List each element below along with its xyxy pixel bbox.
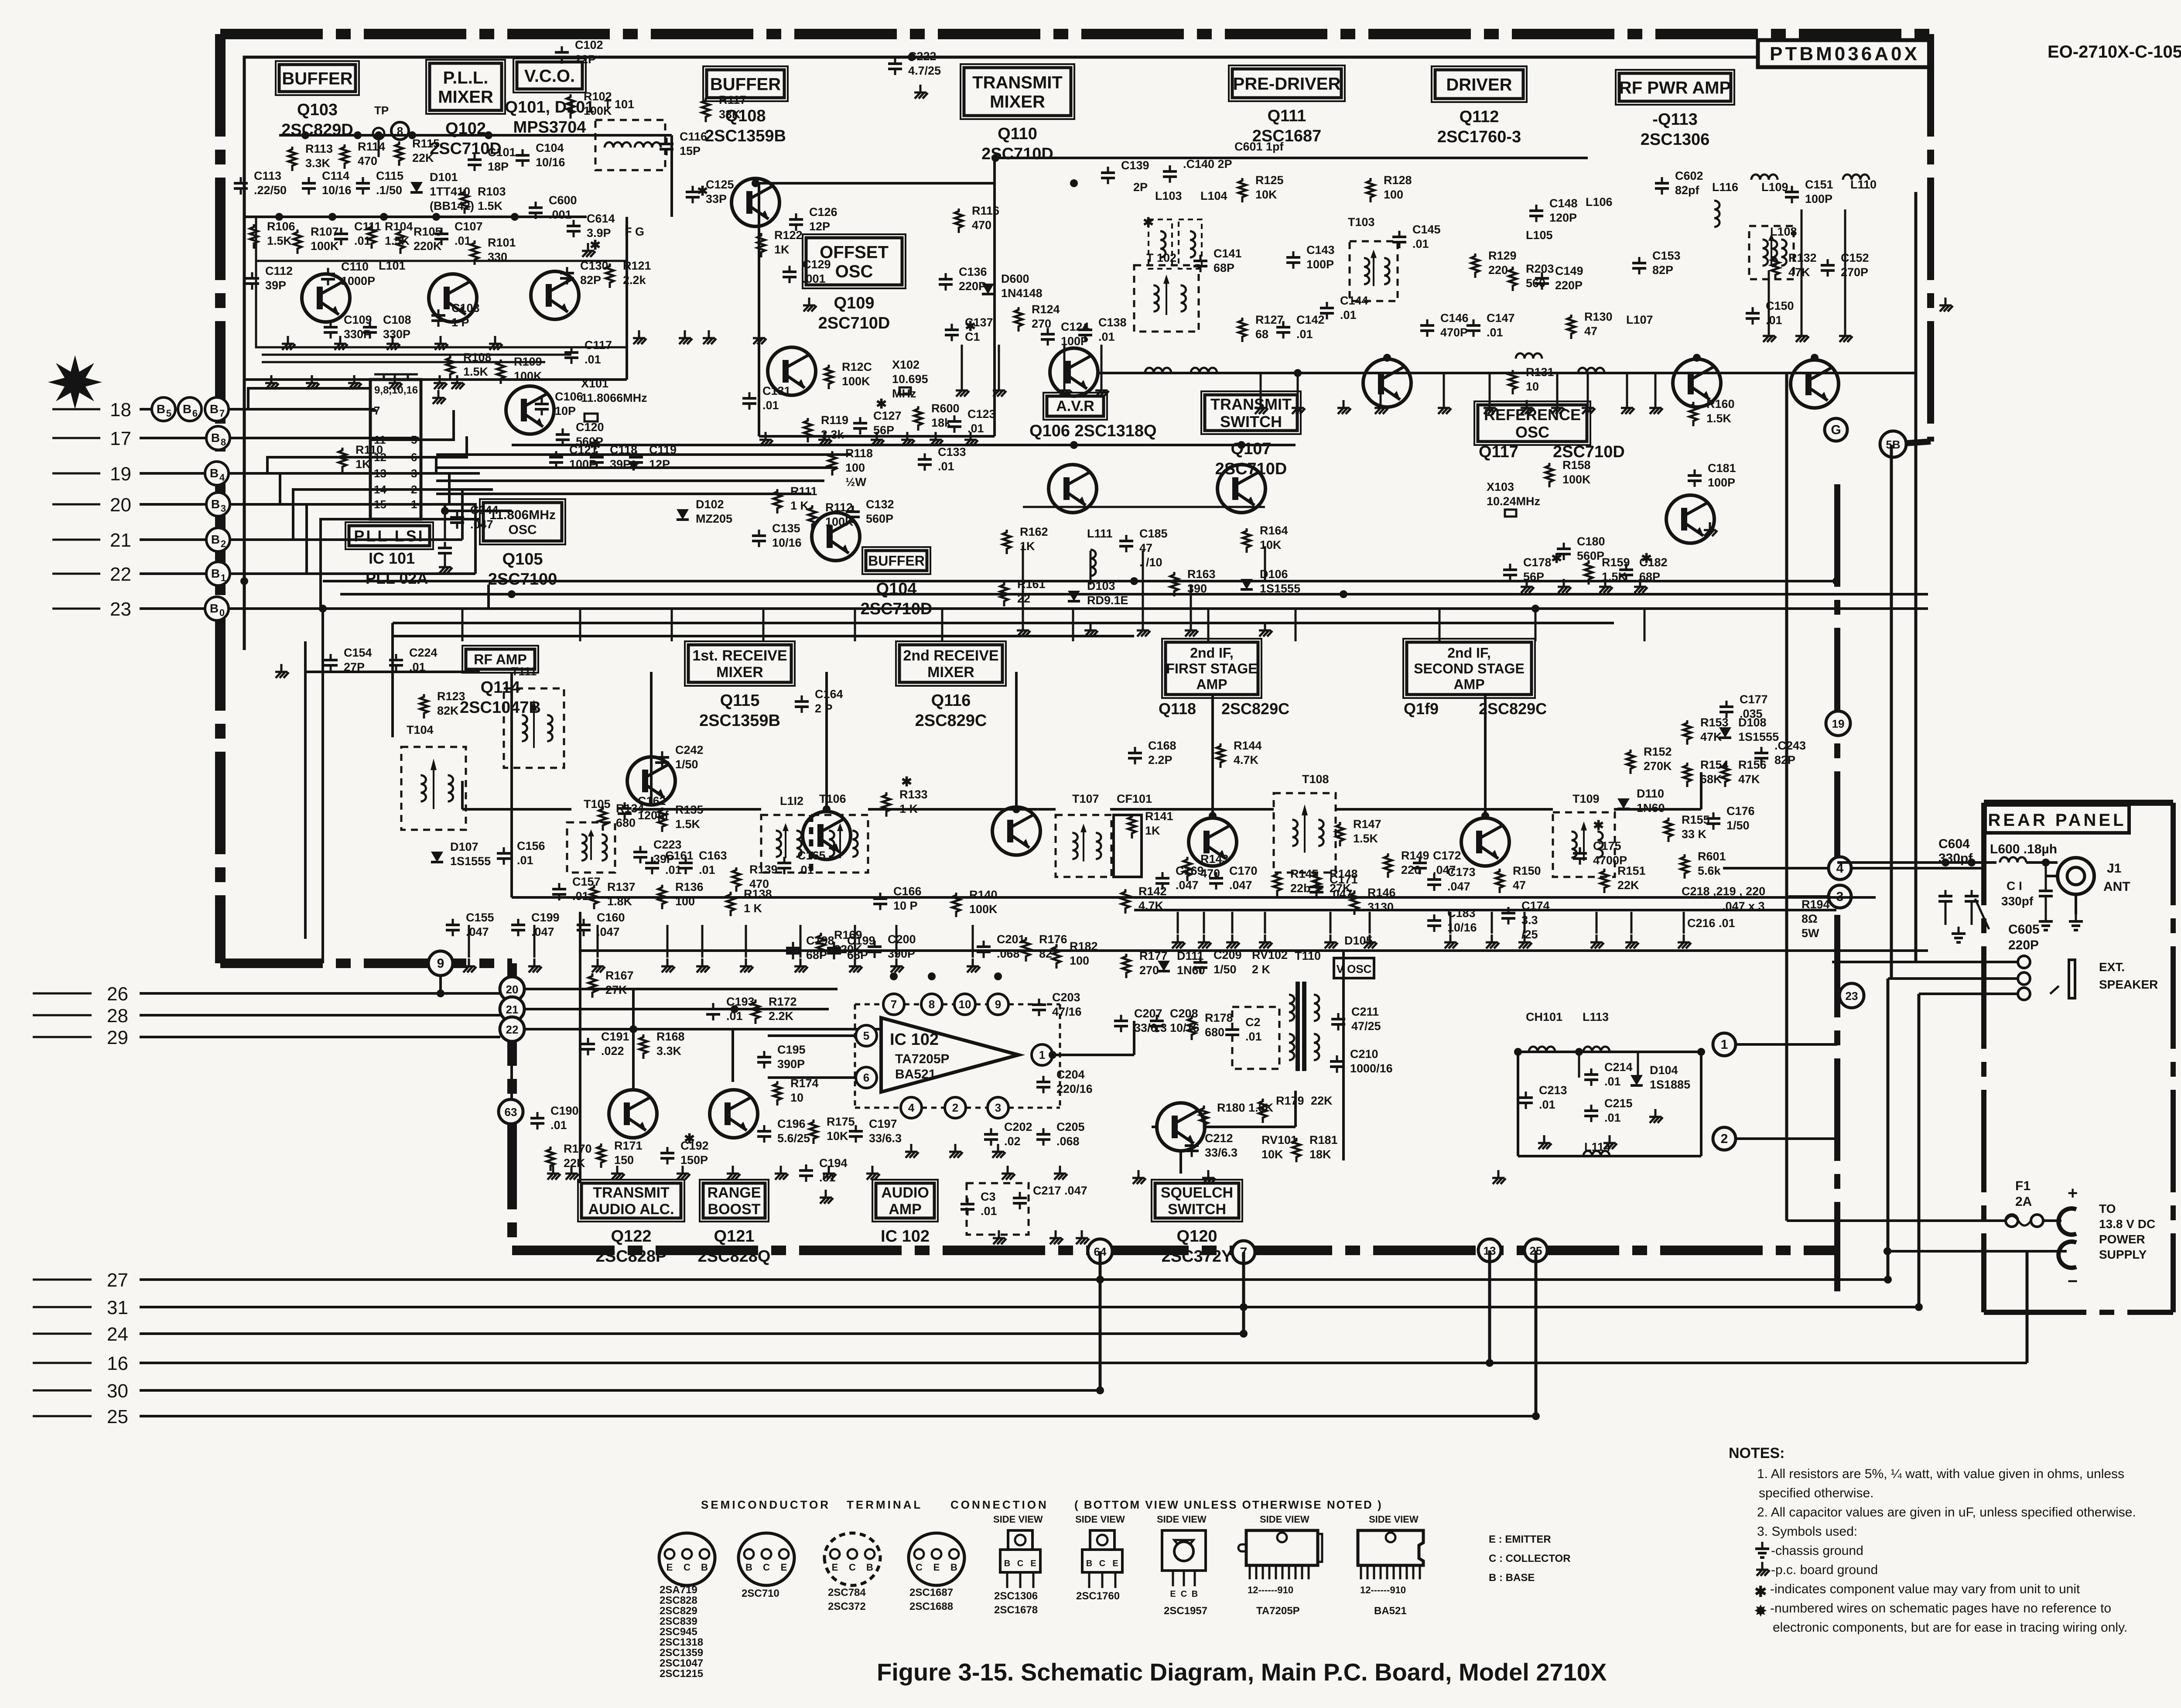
svg-text:63: 63 <box>505 1106 517 1119</box>
svg-text:2 K: 2 K <box>1252 963 1271 976</box>
block label 2nd IF FIRST STAGE AMP Q118 <box>1159 639 1289 718</box>
svg-text:10K: 10K <box>1261 1148 1283 1161</box>
svg-text:.01: .01 <box>1296 328 1313 341</box>
R117 <box>719 93 746 121</box>
svg-text:L110: L110 <box>1850 178 1877 191</box>
D108 <box>1738 716 1779 743</box>
svg-text:390P: 390P <box>888 947 915 960</box>
R181 <box>1309 1133 1338 1161</box>
resistor R167 glyph <box>588 973 596 998</box>
L107 <box>1626 313 1653 326</box>
svg-text:G: G <box>1831 423 1841 437</box>
svg-text:RANGE: RANGE <box>708 1184 761 1201</box>
block label TRANSMIT SWITCH Q107 <box>1201 391 1301 478</box>
svg-text:220K: 220K <box>414 240 442 253</box>
svg-text:2SC710D: 2SC710D <box>818 314 890 332</box>
C602 <box>1675 169 1703 197</box>
svg-text:31: 31 <box>107 1297 128 1318</box>
node 13 <box>1478 1239 1501 1262</box>
R147 <box>1353 818 1381 845</box>
capacitor C116 glyph <box>660 138 673 155</box>
svg-text:R167: R167 <box>605 969 634 982</box>
C143 <box>1306 243 1335 271</box>
svg-text:L104: L104 <box>1200 189 1227 202</box>
R182 <box>1070 940 1098 967</box>
diode D107 glyph <box>431 852 443 862</box>
svg-text:Q115: Q115 <box>720 691 760 710</box>
transformer T107 <box>1056 815 1111 877</box>
capacitor C214 glyph <box>1584 1068 1598 1086</box>
svg-text:.01: .01 <box>455 234 471 247</box>
C110 <box>341 260 375 288</box>
svg-text:33/6.3: 33/6.3 <box>869 1132 902 1145</box>
svg-text:NOTES:: NOTES: <box>1729 1445 1784 1462</box>
svg-text:21: 21 <box>506 1003 519 1016</box>
C119 <box>649 443 677 471</box>
resistor R135 glyph <box>658 808 666 832</box>
R127 <box>1255 313 1284 341</box>
svg-text:100P: 100P <box>1708 476 1735 489</box>
C111 <box>354 220 381 247</box>
svg-text:R117: R117 <box>719 93 746 106</box>
svg-text:C193: C193 <box>726 995 755 1008</box>
transformer T104 <box>401 747 466 830</box>
resistor R170 glyph <box>547 1147 554 1171</box>
svg-text:OSC: OSC <box>508 523 537 537</box>
svg-text:C117: C117 <box>585 339 612 352</box>
ground <box>967 958 980 972</box>
C157 <box>572 875 601 903</box>
block label AUDIO AMP IC102 <box>872 1180 938 1246</box>
capacitor C177 glyph <box>1720 701 1733 718</box>
svg-text:1N4148: 1N4148 <box>1001 287 1043 300</box>
ground <box>1521 400 1534 414</box>
capacitor C114 glyph <box>302 177 316 195</box>
svg-text:R163: R163 <box>1187 568 1216 581</box>
D104 <box>1650 1064 1690 1091</box>
svg-text:2SC839: 2SC839 <box>660 1616 697 1627</box>
diode D111 glyph <box>1158 961 1170 971</box>
svg-text:B: B <box>1192 1589 1198 1599</box>
node 20 <box>500 977 524 1001</box>
svg-text:1.5K: 1.5K <box>267 234 292 247</box>
svg-text:27K: 27K <box>1330 882 1351 895</box>
ground <box>949 1144 963 1158</box>
capacitor C120 glyph <box>556 428 570 446</box>
C168 <box>1148 739 1176 767</box>
terminal line 31 <box>33 1297 1919 1318</box>
capacitor C2 glyph <box>1225 1023 1239 1041</box>
svg-text:8: 8 <box>929 998 935 1011</box>
legend package 2SC1760 <box>1075 1514 1125 1602</box>
resistor R137 glyph <box>590 885 598 909</box>
R150 <box>1513 864 1541 892</box>
.C243 <box>1774 739 1806 767</box>
svg-text:T111: T111 <box>511 665 537 678</box>
capacitor C192 glyph <box>660 1147 674 1164</box>
svg-text:C153: C153 <box>1652 249 1681 262</box>
svg-text:24: 24 <box>107 1324 128 1345</box>
svg-text:100K: 100K <box>1562 473 1591 486</box>
C169 <box>1176 864 1204 892</box>
capacitor C142 glyph <box>1276 321 1290 339</box>
svg-text:SPEAKER: SPEAKER <box>2099 978 2158 991</box>
svg-text:E: E <box>832 1562 838 1573</box>
svg-text:✱: ✱ <box>876 397 887 411</box>
resistor R114 glyph <box>341 144 349 169</box>
T103 <box>1348 216 1375 229</box>
svg-text:82P: 82P <box>580 274 601 287</box>
svg-text:D104: D104 <box>1650 1064 1678 1077</box>
svg-text:33/6.3: 33/6.3 <box>1134 1021 1167 1034</box>
R174 <box>790 1077 819 1104</box>
svg-text:B: B <box>950 1562 957 1573</box>
C203 <box>1052 991 1082 1018</box>
capacitor C171 glyph <box>1309 881 1323 898</box>
svg-text:.01: .01 <box>699 863 715 876</box>
ground <box>434 375 447 389</box>
svg-text:.01: .01 <box>1539 1098 1555 1111</box>
C196 <box>777 1117 810 1145</box>
resistor R130 glyph <box>1567 315 1575 339</box>
C136 <box>959 265 987 293</box>
transistor Q108 <box>732 178 779 226</box>
resistor R180 glyph <box>1200 1106 1208 1130</box>
node 1 <box>1713 1033 1736 1056</box>
svg-text:CH101: CH101 <box>1526 1010 1562 1023</box>
svg-text:12------910: 12------910 <box>1248 1585 1293 1595</box>
C170 <box>1229 864 1258 892</box>
transistor Q119 <box>1461 818 1509 866</box>
svg-text:6: 6 <box>192 408 198 419</box>
C210 <box>1350 1047 1393 1075</box>
svg-text:Q103: Q103 <box>297 101 338 119</box>
R121 <box>623 259 651 287</box>
svg-text:R176: R176 <box>1039 933 1067 946</box>
C181 <box>1708 462 1736 489</box>
resistor R132 glyph <box>1771 256 1779 280</box>
svg-text:47K: 47K <box>1700 730 1722 743</box>
CH101 <box>1526 1010 1562 1023</box>
svg-text:4.7K: 4.7K <box>1138 899 1164 912</box>
block label DRIVER Q112 <box>1432 66 1527 146</box>
resistor R122 glyph <box>757 233 765 257</box>
wire verticals right side <box>1100 192 2027 1416</box>
C172 <box>1433 849 1461 876</box>
svg-text:R150: R150 <box>1513 864 1541 877</box>
capacitor C144 glyph <box>1320 302 1334 319</box>
svg-text:2SC1359B: 2SC1359B <box>699 712 780 730</box>
node 4 <box>1829 857 1851 880</box>
svg-text:C203: C203 <box>1052 991 1080 1004</box>
svg-text:21: 21 <box>110 530 131 551</box>
C139 <box>1121 159 1149 172</box>
C198 <box>806 934 834 962</box>
svg-text:C166: C166 <box>893 885 922 898</box>
svg-text:E: E <box>933 1562 940 1573</box>
svg-text:10.24MHz: 10.24MHz <box>1487 495 1540 508</box>
capacitor C178 glyph <box>1503 564 1517 581</box>
svg-text:C154: C154 <box>344 646 372 659</box>
antenna connector J1 <box>2046 858 2130 930</box>
capacitor C111 glyph <box>334 228 348 245</box>
C209 <box>1214 948 1242 976</box>
svg-text:R160: R160 <box>1706 397 1735 411</box>
C195 <box>777 1043 806 1071</box>
rear panel feed wires <box>441 863 1984 1139</box>
svg-text:68P: 68P <box>1214 261 1234 274</box>
R105 <box>414 225 442 253</box>
svg-text:13.8 V DC: 13.8 V DC <box>2099 1217 2155 1231</box>
transistor Q101 <box>531 271 579 319</box>
capacitor C190 glyph <box>530 1112 544 1130</box>
svg-text:3.9P: 3.9P <box>587 226 611 240</box>
block label 11.806MHz OSC Q105 <box>480 499 565 589</box>
svg-text:D107: D107 <box>450 840 479 853</box>
svg-text:.01: .01 <box>585 353 601 366</box>
svg-text:OSC: OSC <box>1515 423 1549 441</box>
svg-text:TP: TP <box>374 104 389 117</box>
resistor R108 glyph <box>446 355 454 380</box>
ground <box>386 336 400 350</box>
svg-text:C195: C195 <box>777 1043 806 1056</box>
svg-text:L600 .18µh: L600 .18µh <box>1990 842 2057 856</box>
capacitor C112 glyph <box>245 272 259 290</box>
resistor R154 glyph <box>1683 763 1691 787</box>
svg-text:25: 25 <box>107 1406 128 1427</box>
svg-text:B: B <box>211 431 220 445</box>
R162 <box>1020 525 1048 553</box>
ground <box>871 432 884 446</box>
C215 <box>1604 1097 1633 1124</box>
capacitor C133 glyph <box>918 453 932 471</box>
resistor R142 glyph <box>1121 889 1129 914</box>
svg-text:470: 470 <box>972 219 991 232</box>
legend heading SEMICONDUCTOR TERMINAL CONNECTION <box>701 1498 1383 1511</box>
svg-text:R104: R104 <box>385 220 413 233</box>
R177 <box>1139 949 1168 977</box>
resistor R177 glyph <box>1122 954 1130 978</box>
svg-text:C: C <box>849 1562 856 1573</box>
capacitor C223 glyph <box>633 846 647 863</box>
ground <box>611 1166 625 1180</box>
resistor R111 glyph <box>773 489 781 513</box>
C201 <box>997 933 1025 960</box>
R124 <box>1032 303 1060 330</box>
svg-text:220: 220 <box>1401 863 1421 876</box>
T106 <box>819 792 846 805</box>
svg-text:330P: 330P <box>344 328 371 341</box>
transformer L112 box <box>761 815 810 873</box>
svg-text:B: B <box>1004 1559 1010 1568</box>
ground <box>1492 1170 1506 1184</box>
svg-text:47/25: 47/25 <box>1351 1020 1381 1033</box>
ground <box>1364 934 1377 948</box>
capacitor C132 glyph <box>846 506 860 523</box>
svg-text:.01: .01 <box>1340 308 1357 322</box>
svg-text:22K: 22K <box>412 151 434 164</box>
capacitor C127 glyph <box>853 417 867 435</box>
C199 <box>531 911 560 938</box>
ground <box>956 383 969 397</box>
svg-text:✱: ✱ <box>1641 551 1652 566</box>
block label SQUELCH SWITCH Q120 <box>1152 1180 1242 1266</box>
C130 <box>580 259 608 287</box>
svg-text:R139: R139 <box>749 863 778 876</box>
svg-text:.035: .035 <box>1740 707 1763 720</box>
svg-text:PTBM036A0X: PTBM036A0X <box>1770 43 1920 65</box>
ground <box>849 958 862 972</box>
svg-text:120P: 120P <box>1549 211 1577 224</box>
svg-text:28: 28 <box>107 1005 128 1027</box>
capacitor C136 glyph <box>939 273 953 291</box>
diode D600 glyph <box>982 284 994 294</box>
C124 <box>1061 320 1089 348</box>
svg-text:C181: C181 <box>1708 462 1736 475</box>
ground <box>1649 400 1663 414</box>
svg-text:5.6k: 5.6k <box>1698 864 1721 877</box>
ground <box>528 958 542 972</box>
block label 2nd RECEIVE MIXER Q116 <box>896 641 1006 730</box>
R110 <box>356 443 383 471</box>
svg-text:✱: ✱ <box>590 438 601 452</box>
diode D103 glyph <box>1068 591 1080 601</box>
resistor R156 glyph <box>1721 763 1729 787</box>
C133 <box>938 445 966 473</box>
svg-text:68: 68 <box>1255 328 1268 341</box>
C165 <box>797 849 826 876</box>
resistor R104 glyph <box>368 224 376 249</box>
T109 <box>1573 792 1600 805</box>
svg-text:B: B <box>866 1562 873 1573</box>
ground <box>1054 1166 1067 1180</box>
transformer T110 winding <box>1289 982 1319 1071</box>
C192 <box>680 1139 709 1167</box>
svg-text:C112: C112 <box>265 264 293 277</box>
svg-text:C602: C602 <box>1675 169 1703 182</box>
ground <box>1255 400 1268 414</box>
resistor R129 glyph <box>1471 253 1479 278</box>
svg-text:.C243: .C243 <box>1774 739 1806 752</box>
capacitor C131 glyph <box>742 392 756 410</box>
C146 <box>1440 311 1469 339</box>
svg-text:.22/50: .22/50 <box>254 184 287 197</box>
svg-text:SWITCH: SWITCH <box>1220 413 1282 431</box>
terminal line 30 <box>33 1380 1100 1402</box>
block label TRANSMIT AUDIO ALC Q122 <box>578 1180 684 1266</box>
svg-text:1 K: 1 K <box>744 902 762 915</box>
svg-text:10/16: 10/16 <box>536 156 565 169</box>
T107 <box>1072 792 1099 805</box>
transformer T108 <box>1274 793 1336 873</box>
svg-text:E: E <box>1030 1559 1036 1568</box>
C194 <box>819 1157 848 1184</box>
svg-text:100: 100 <box>1070 954 1089 967</box>
capacitor C129 glyph <box>783 266 797 283</box>
R133 <box>899 788 928 815</box>
svg-text:.01: .01 <box>762 399 779 412</box>
R178 <box>1205 1011 1233 1039</box>
svg-text:680: 680 <box>1205 1026 1224 1039</box>
transformer T102 <box>1134 265 1199 332</box>
svg-text:12P: 12P <box>809 220 830 233</box>
capacitor C209 glyph <box>1193 956 1207 974</box>
capacitor C110 glyph <box>321 268 335 285</box>
AVR area verticals <box>1023 507 1265 624</box>
svg-text:B : BASE: B : BASE <box>1489 1572 1535 1584</box>
svg-text:C155: C155 <box>466 911 494 924</box>
svg-text:Q117: Q117 <box>1479 443 1518 461</box>
C151 <box>1805 178 1833 205</box>
svg-text:9: 9 <box>995 998 1001 1011</box>
svg-text:C180: C180 <box>1577 535 1605 548</box>
svg-text:27P: 27P <box>344 661 365 674</box>
svg-text:1.5K: 1.5K <box>478 199 503 212</box>
C123 <box>967 407 996 435</box>
C138 <box>1098 316 1127 343</box>
svg-text:T 101: T 101 <box>604 98 634 111</box>
svg-text:OSC: OSC <box>835 262 873 281</box>
svg-text:7: 7 <box>219 408 225 419</box>
svg-text:100: 100 <box>1384 188 1403 201</box>
svg-text:1.5K: 1.5K <box>1353 832 1378 845</box>
svg-text:.01: .01 <box>981 1205 997 1218</box>
T105 <box>584 798 611 811</box>
svg-text:C205: C205 <box>1056 1120 1085 1133</box>
R129 <box>1488 249 1517 277</box>
svg-text:T104: T104 <box>407 723 434 736</box>
ground <box>1939 298 1953 311</box>
svg-text:L111: L111 <box>1087 527 1113 540</box>
resistor R147 glyph <box>1336 822 1344 846</box>
receiver signal path rail <box>462 772 1701 809</box>
svg-text:R131: R131 <box>1526 366 1554 379</box>
ground <box>1226 934 1240 948</box>
R114 <box>358 140 385 168</box>
svg-text:BOOST: BOOST <box>708 1201 761 1218</box>
svg-text:2: 2 <box>221 538 226 549</box>
svg-text:47K: 47K <box>1788 266 1810 279</box>
capacitor C160 glyph <box>577 919 591 936</box>
svg-text:1S1885: 1S1885 <box>1650 1078 1690 1091</box>
svg-text:560P: 560P <box>1577 549 1604 562</box>
legend package 2SC1306 2SC1678 <box>993 1514 1043 1616</box>
svg-text:C131: C131 <box>762 384 791 397</box>
capacitor C212 glyph <box>1185 1140 1199 1157</box>
ground <box>930 432 943 446</box>
C109 <box>344 313 372 341</box>
transistor Q117 <box>1666 495 1714 543</box>
svg-text:B: B <box>210 402 219 416</box>
ground <box>265 375 279 389</box>
ground <box>740 958 753 972</box>
svg-text:C164: C164 <box>815 688 843 701</box>
resistor R133 glyph <box>882 792 890 817</box>
svg-text:C104: C104 <box>536 141 564 154</box>
svg-text:470P: 470P <box>1440 326 1468 339</box>
C185 <box>1139 527 1168 569</box>
C115 <box>376 169 403 197</box>
svg-text:Q114: Q114 <box>481 678 520 697</box>
svg-text:R119: R119 <box>821 414 848 427</box>
svg-text:R105: R105 <box>414 225 442 238</box>
svg-text:1.5K: 1.5K <box>675 818 701 831</box>
svg-text:18P: 18P <box>488 160 509 173</box>
capacitor C207 glyph <box>1114 1015 1128 1032</box>
node 7 <box>1232 1241 1255 1263</box>
svg-text:.01: .01 <box>1604 1111 1621 1124</box>
svg-text:R114: R114 <box>358 140 385 153</box>
